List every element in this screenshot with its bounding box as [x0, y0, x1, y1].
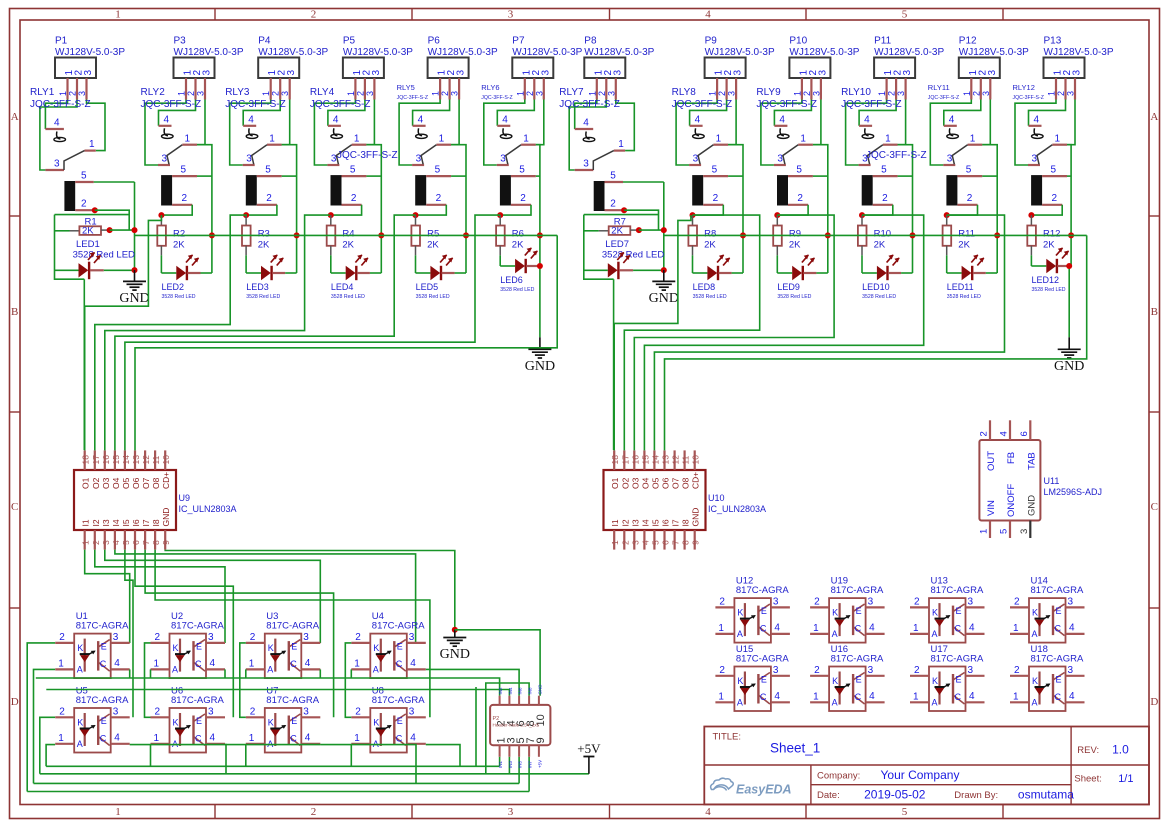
relay RLY4 contact — [327, 115, 366, 166]
wire — [159, 100, 196, 126]
svg-text:3528 Red LED: 3528 Red LED — [73, 250, 135, 261]
wire — [623, 181, 664, 183]
svg-text:1: 1 — [58, 733, 64, 744]
junction — [328, 212, 334, 218]
wire — [813, 175, 828, 177]
svg-text:E: E — [397, 716, 403, 726]
svg-text:3: 3 — [409, 632, 415, 643]
svg-text:R9: R9 — [789, 229, 801, 240]
junction — [825, 232, 831, 238]
svg-text:1: 1 — [913, 623, 919, 634]
svg-text:10: 10 — [161, 455, 171, 465]
svg-text:I2: I2 — [91, 519, 101, 526]
svg-text:1: 1 — [431, 91, 441, 96]
wire — [285, 272, 296, 274]
connector P4 pin net labels — [261, 91, 290, 96]
svg-text:5: 5 — [81, 171, 87, 182]
svg-text:8: 8 — [681, 540, 691, 545]
svg-text:1: 1 — [346, 91, 356, 96]
IC U9 pin names — [81, 472, 172, 527]
svg-text:3: 3 — [583, 159, 589, 170]
LED LED7 — [584, 252, 633, 279]
svg-text:2: 2 — [436, 193, 442, 204]
svg-text:IN7: IN7 — [528, 761, 533, 769]
wire — [83, 279, 85, 450]
wire O1 — [613, 323, 615, 450]
svg-text:R4: R4 — [342, 229, 354, 240]
wire rail — [40, 773, 589, 775]
svg-text:4: 4 — [1069, 623, 1075, 634]
svg-text:1: 1 — [618, 139, 624, 150]
relay RLY4 coil — [331, 165, 367, 206]
IC U10 bottom pins — [614, 530, 695, 550]
svg-text:D: D — [1150, 696, 1158, 708]
wire rail — [46, 765, 500, 767]
svg-text:P12: P12 — [959, 36, 977, 47]
connector P11 pin net labels — [877, 91, 906, 96]
svg-text:RLY7: RLY7 — [559, 87, 584, 98]
svg-text:817C-AGRA: 817C-AGRA — [266, 695, 319, 706]
connector P11 pin numbers — [883, 70, 913, 76]
IC U11 body — [979, 420, 1040, 538]
svg-text:K: K — [737, 608, 743, 618]
svg-text:2: 2 — [719, 665, 725, 676]
connector P10 pin numbers — [798, 70, 828, 76]
LED LED6 — [500, 248, 539, 293]
wire — [104, 269, 135, 271]
wire — [1029, 100, 1066, 126]
svg-text:TAB: TAB — [1026, 452, 1037, 470]
svg-text:1: 1 — [718, 623, 724, 634]
wire — [944, 100, 981, 126]
connector P12 pin net labels — [962, 91, 991, 96]
optocoupler U3 — [246, 632, 320, 678]
svg-text:5: 5 — [1051, 165, 1057, 176]
power +5V — [577, 741, 601, 774]
svg-text:3528 Red LED: 3528 Red LED — [602, 250, 664, 261]
svg-text:4: 4 — [705, 806, 711, 818]
svg-text:4: 4 — [333, 115, 339, 126]
svg-text:O4: O4 — [640, 477, 650, 489]
wire — [776, 255, 778, 273]
svg-text:2: 2 — [914, 597, 920, 608]
svg-text:4: 4 — [54, 118, 60, 129]
svg-text:1: 1 — [970, 134, 976, 145]
optocoupler U3 labels — [266, 611, 319, 632]
svg-text:1: 1 — [1055, 134, 1061, 145]
svg-text:2: 2 — [186, 91, 196, 96]
svg-text:O1: O1 — [610, 477, 620, 489]
svg-text:3: 3 — [981, 91, 991, 96]
IC U9 pin numbers — [81, 455, 172, 545]
resistor R10 — [858, 215, 891, 255]
junction — [132, 227, 138, 233]
wire — [240, 690, 246, 718]
wire — [639, 229, 664, 231]
svg-text:LED11: LED11 — [947, 282, 974, 292]
wire — [85, 215, 162, 306]
wire — [95, 550, 225, 643]
relay RLY9 coil — [777, 165, 813, 206]
wire — [539, 266, 541, 337]
svg-text:1: 1 — [269, 134, 275, 145]
wire — [197, 145, 212, 273]
svg-text:JQC-3FF-S-Z: JQC-3FF-S-Z — [928, 95, 959, 101]
wire — [947, 205, 978, 215]
svg-text:A: A — [737, 698, 743, 708]
wire — [350, 745, 352, 767]
svg-text:GND: GND — [161, 508, 171, 527]
svg-text:WJ128V-5.0-3P: WJ128V-5.0-3P — [584, 47, 654, 58]
wire — [45, 100, 67, 130]
svg-text:1: 1 — [185, 134, 191, 145]
svg-text:5: 5 — [712, 165, 718, 176]
wire — [634, 215, 834, 450]
svg-text:E: E — [196, 642, 202, 652]
IC U9 top pins — [85, 450, 166, 470]
wire rail — [34, 782, 520, 784]
svg-text:4: 4 — [305, 733, 311, 744]
wire — [125, 550, 133, 718]
svg-text:E: E — [1056, 606, 1062, 616]
svg-text:K: K — [737, 676, 743, 686]
svg-text:1: 1 — [523, 134, 529, 145]
svg-text:2: 2 — [525, 91, 535, 96]
wire — [1067, 145, 1071, 266]
svg-text:2: 2 — [311, 9, 317, 21]
svg-text:6: 6 — [1019, 431, 1030, 436]
svg-text:Drawn By:: Drawn By: — [954, 790, 998, 801]
connector P8 pin numbers — [593, 70, 623, 76]
junction — [859, 212, 865, 218]
svg-text:LM2596S-ADJ: LM2596S-ADJ — [1044, 487, 1103, 497]
svg-text:E: E — [291, 642, 297, 652]
svg-text:1: 1 — [115, 806, 121, 818]
wire — [155, 550, 430, 718]
svg-text:9: 9 — [535, 737, 547, 743]
svg-text:2: 2 — [520, 193, 526, 204]
connector P9 — [705, 58, 746, 79]
svg-text:E: E — [291, 716, 297, 726]
svg-text:15: 15 — [640, 455, 650, 465]
svg-text:P8: P8 — [584, 36, 597, 47]
svg-text:1: 1 — [81, 540, 91, 545]
svg-text:RLY11: RLY11 — [928, 83, 950, 92]
LED LED2 — [161, 255, 200, 300]
svg-text:A: A — [1032, 629, 1038, 639]
wire — [416, 205, 447, 215]
svg-text:IC_ULN2803A: IC_ULN2803A — [179, 504, 237, 514]
svg-text:ONOFF: ONOFF — [1006, 484, 1017, 517]
svg-text:JQC-3FF-S-Z: JQC-3FF-S-Z — [337, 150, 398, 161]
svg-text:IN3: IN3 — [508, 761, 513, 769]
wire — [282, 100, 290, 145]
LED LED8 — [693, 255, 732, 300]
wire — [160, 255, 162, 273]
svg-text:2K: 2K — [512, 240, 524, 251]
wire — [663, 182, 665, 270]
svg-text:E: E — [101, 642, 107, 652]
svg-text:K: K — [77, 718, 83, 728]
svg-text:P7: P7 — [512, 36, 525, 47]
junction — [636, 227, 642, 233]
svg-text:5: 5 — [902, 9, 908, 21]
svg-text:JQC-3FF-S-Z: JQC-3FF-S-Z — [756, 99, 817, 110]
EasyEDA logo — [711, 778, 792, 796]
svg-text:GND: GND — [1054, 359, 1084, 374]
svg-text:1: 1 — [716, 134, 722, 145]
svg-text:4: 4 — [869, 623, 875, 634]
svg-text:1: 1 — [261, 91, 271, 96]
svg-text:2K: 2K — [173, 240, 185, 251]
svg-text:P9: P9 — [705, 36, 718, 47]
svg-text:3: 3 — [54, 159, 60, 170]
svg-text:O7: O7 — [671, 477, 681, 489]
connector P11 pins — [887, 78, 906, 100]
svg-text:2: 2 — [155, 707, 161, 718]
svg-text:JQC-3FF-S-Z: JQC-3FF-S-Z — [481, 95, 512, 101]
svg-text:2: 2 — [182, 193, 188, 204]
svg-text:B: B — [11, 306, 18, 318]
svg-text:4: 4 — [305, 658, 311, 669]
svg-text:2K: 2K — [427, 240, 439, 251]
connector P3 labels — [174, 36, 244, 58]
svg-text:K: K — [932, 608, 938, 618]
svg-text:A: A — [832, 698, 838, 708]
wire — [413, 100, 450, 126]
svg-text:3: 3 — [113, 707, 119, 718]
wire — [728, 175, 743, 177]
wire — [240, 643, 246, 690]
svg-text:EasyEDA: EasyEDA — [736, 783, 792, 797]
svg-text:2: 2 — [882, 193, 888, 204]
svg-text:2019-05-02: 2019-05-02 — [864, 788, 926, 802]
wire — [813, 100, 821, 145]
svg-text:5: 5 — [650, 540, 660, 545]
LED LED11 — [947, 255, 986, 300]
svg-text:3: 3 — [101, 540, 111, 545]
wire rail — [36, 678, 500, 696]
wire — [130, 745, 226, 774]
svg-text:2: 2 — [351, 193, 357, 204]
svg-text:18: 18 — [81, 455, 91, 465]
svg-text:IN4: IN4 — [508, 687, 513, 695]
wire 2K bus left — [135, 234, 558, 236]
connector P13 pin numbers — [1053, 70, 1083, 76]
svg-text:5: 5 — [121, 540, 131, 545]
svg-text:JQC-3FF-S-Z: JQC-3FF-S-Z — [672, 99, 733, 110]
svg-text:A: A — [1150, 111, 1158, 123]
optocoupler U12 — [715, 597, 790, 643]
svg-text:LED3: LED3 — [246, 282, 269, 292]
svg-text:4: 4 — [583, 118, 589, 129]
wire — [95, 215, 247, 450]
svg-text:1: 1 — [962, 91, 972, 96]
LED LED10 — [862, 255, 901, 300]
svg-text:2: 2 — [717, 91, 727, 96]
svg-text:3: 3 — [303, 707, 309, 718]
wire — [624, 210, 658, 230]
svg-text:3528 Red LED: 3528 Red LED — [331, 294, 365, 300]
junction — [774, 212, 780, 218]
svg-text:817C-AGRA: 817C-AGRA — [266, 621, 319, 632]
relay RLY9 contact — [774, 115, 813, 166]
svg-text:RLY10: RLY10 — [841, 87, 871, 98]
svg-text:RLY2: RLY2 — [141, 87, 166, 98]
svg-text:P2: P2 — [493, 716, 500, 722]
svg-text:4: 4 — [210, 658, 216, 669]
optocoupler U15 labels — [736, 644, 789, 665]
svg-text:4: 4 — [969, 691, 975, 702]
svg-text:C: C — [955, 624, 962, 634]
svg-text:1: 1 — [813, 692, 819, 703]
wire — [774, 100, 811, 126]
svg-text:I8: I8 — [681, 519, 691, 526]
wire — [898, 145, 913, 273]
svg-text:E: E — [856, 606, 862, 616]
optocoupler U17 labels — [931, 644, 984, 665]
wire — [415, 255, 417, 273]
svg-text:P5: P5 — [343, 36, 356, 47]
junction — [1068, 232, 1074, 238]
svg-text:1: 1 — [979, 529, 990, 534]
junction — [92, 207, 98, 213]
wire — [150, 745, 152, 767]
svg-text:U11: U11 — [1044, 476, 1060, 486]
svg-text:4: 4 — [969, 623, 975, 634]
svg-text:GND: GND — [649, 291, 679, 306]
svg-text:817C-AGRA: 817C-AGRA — [831, 585, 884, 596]
wire GND net — [165, 550, 455, 630]
svg-text:K: K — [173, 643, 179, 653]
wire — [197, 175, 212, 177]
optocoupler U4 — [351, 632, 426, 678]
svg-text:LED12: LED12 — [1032, 275, 1060, 285]
connector P6 labels — [428, 36, 498, 58]
relay RLY12 coil — [1031, 165, 1067, 206]
svg-text:+5V: +5V — [537, 760, 542, 768]
connector P10 pin net labels — [792, 91, 821, 96]
relay RLY10 extra value label — [866, 150, 927, 161]
connector P1 pin numbers — [64, 70, 94, 76]
svg-text:3: 3 — [450, 91, 460, 96]
wire — [761, 100, 802, 166]
wire — [986, 272, 997, 274]
LED LED12 — [1031, 248, 1070, 293]
svg-text:4: 4 — [1034, 115, 1040, 126]
svg-text:2: 2 — [1052, 193, 1058, 204]
svg-text:2: 2 — [266, 193, 272, 204]
svg-text:1: 1 — [249, 659, 255, 670]
svg-text:2: 2 — [814, 597, 820, 608]
svg-text:O2: O2 — [91, 477, 101, 489]
optocoupler U7 — [246, 707, 320, 753]
svg-text:1: 1 — [1013, 623, 1019, 634]
svg-text:4: 4 — [640, 540, 650, 545]
svg-text:817C-AGRA: 817C-AGRA — [1031, 654, 1084, 665]
wire — [27, 643, 55, 792]
LED LED1 labels — [73, 239, 135, 261]
svg-text:I4: I4 — [640, 519, 650, 526]
svg-text:2: 2 — [81, 199, 87, 210]
svg-text:WJ128V-5.0-3P: WJ128V-5.0-3P — [705, 47, 775, 58]
svg-text:C: C — [195, 659, 202, 669]
svg-text:3: 3 — [202, 70, 213, 76]
svg-text:4: 4 — [774, 623, 780, 634]
svg-text:JQC-3FF-S-Z: JQC-3FF-S-Z — [141, 99, 202, 110]
LED LED7 labels — [602, 239, 664, 261]
wire — [500, 205, 531, 215]
svg-text:Sheet_1: Sheet_1 — [770, 741, 820, 756]
connector P10 pins — [802, 78, 821, 100]
svg-text:1: 1 — [913, 692, 919, 703]
svg-text:3: 3 — [1068, 597, 1074, 608]
svg-text:IN6: IN6 — [518, 687, 523, 695]
svg-text:I3: I3 — [101, 519, 111, 526]
svg-text:3: 3 — [733, 70, 744, 76]
svg-text:E: E — [196, 716, 202, 726]
svg-text:IN1: IN1 — [498, 761, 503, 769]
svg-text:JQC-3FF-S-Z: JQC-3FF-S-Z — [559, 99, 620, 110]
svg-text:3: 3 — [811, 91, 821, 96]
wire — [135, 550, 233, 718]
wire — [584, 215, 614, 280]
svg-text:WJ128V-5.0-3P: WJ128V-5.0-3P — [343, 47, 413, 58]
svg-text:C: C — [855, 624, 862, 634]
optocoupler U8 labels — [372, 686, 425, 707]
svg-text:3: 3 — [77, 91, 87, 96]
wire — [426, 669, 519, 695]
svg-text:817C-AGRA: 817C-AGRA — [372, 695, 425, 706]
svg-text:WJ128V-5.0-3P: WJ128V-5.0-3P — [959, 47, 1029, 58]
relay RLY2 labels — [141, 87, 202, 110]
connector P8 pin net labels — [587, 91, 616, 96]
wire — [314, 100, 355, 166]
wire — [366, 145, 381, 273]
svg-text:1: 1 — [177, 91, 187, 96]
wire — [95, 210, 129, 230]
svg-text:4: 4 — [410, 658, 416, 669]
svg-text:1: 1 — [115, 9, 121, 21]
svg-text:LED8: LED8 — [693, 282, 716, 292]
svg-text:9: 9 — [691, 540, 701, 545]
IC U10 body — [604, 470, 706, 530]
svg-text:P11: P11 — [874, 36, 891, 47]
svg-text:2: 2 — [155, 632, 161, 643]
svg-text:E: E — [761, 606, 767, 616]
svg-text:C: C — [11, 501, 18, 513]
relay RLY11 contact — [943, 115, 982, 166]
IC U11 pin names — [986, 451, 1037, 517]
connector P1 labels — [55, 36, 125, 58]
connector P4 pin numbers — [267, 70, 297, 76]
svg-text:OUT: OUT — [986, 451, 997, 471]
junction — [740, 232, 746, 238]
connector P6 pin net labels — [431, 91, 460, 96]
svg-text:17: 17 — [620, 455, 630, 465]
optocoupler U13 — [910, 597, 985, 643]
resistor R11 — [943, 215, 975, 255]
relay RLY6 labels — [481, 83, 512, 101]
svg-text:Header-Male 2.54_2x5: Header-Male 2.54_2x5 — [493, 723, 540, 728]
svg-text:E: E — [397, 642, 403, 652]
connector P12 pins — [971, 78, 990, 100]
svg-text:7: 7 — [141, 540, 151, 545]
svg-text:+5V: +5V — [577, 741, 601, 756]
junction — [661, 227, 667, 233]
svg-text:4: 4 — [114, 658, 120, 669]
svg-text:3: 3 — [727, 91, 737, 96]
